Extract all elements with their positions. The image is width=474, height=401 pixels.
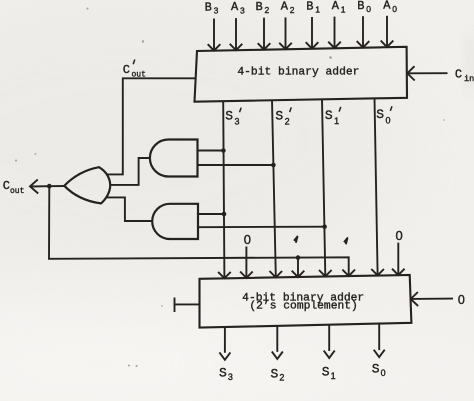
wire Cout feedback to U2 input with arrow: [49, 186, 355, 276]
svg-text:0: 0: [244, 232, 251, 247]
wire Cin arrow: [407, 66, 447, 80]
wire input B3 arrow: [208, 19, 221, 51]
wire S2' vertical with arrow into U2: [270, 100, 283, 277]
wire input A0 arrow: [381, 16, 394, 47]
wire output S2 arrow: [272, 326, 283, 359]
constant 1 label (right): [344, 238, 347, 244]
node S1' label: [325, 107, 341, 126]
AND gate G1: [150, 140, 198, 177]
wire input A1 arrow: [328, 17, 341, 48]
wire input B2 arrow: [258, 18, 271, 50]
svg-text:0: 0: [458, 293, 465, 307]
wire C'out from U1 to OR gate G3: [108, 78, 196, 174]
wire output S0 arrow: [374, 323, 385, 357]
junction Cout feedback: [47, 184, 52, 189]
junction G2-S3': [222, 212, 227, 217]
wire input A2 arrow: [279, 17, 292, 49]
constant 1 label (left): [294, 237, 297, 243]
svg-text:(2’s complement): (2’s complement): [249, 301, 357, 313]
wire S3' vertical with arrow into U2: [218, 101, 231, 278]
wire S0' vertical with arrow into U2: [371, 98, 384, 275]
4-bit binary adder U2 (2's complement): [200, 275, 412, 328]
AND gate G2: [152, 204, 198, 239]
wire output S1 arrow: [324, 325, 335, 359]
junction G1-S3': [221, 148, 226, 153]
wire feedback branch arrow into U2: [292, 258, 305, 278]
wire constant 0 stub arrow (right): [392, 243, 405, 276]
wire G2 input 1 from S3': [198, 213, 224, 215]
junction feedback branch: [296, 255, 301, 260]
wire S1' vertical with arrow into U2: [319, 99, 332, 276]
wire G2 input 2 from S1': [198, 226, 325, 229]
wire G1 output to G3: [110, 158, 150, 185]
wire U2 left stub terminal: [175, 298, 200, 313]
node S2' label: [275, 107, 291, 126]
wire G1 input 2 from S2': [198, 164, 274, 166]
wire G2 output to G3: [106, 197, 152, 221]
4-bit binary adder U1: [195, 47, 408, 102]
node S0' label: [376, 106, 392, 125]
junction G2-S1': [322, 224, 327, 229]
wire input B1 arrow: [306, 17, 319, 49]
label C'out: [123, 60, 146, 80]
svg-text:4-bit binary adder: 4-bit binary adder: [237, 67, 359, 79]
wire G1 input 1 from S3': [198, 150, 224, 152]
svg-text:0: 0: [396, 228, 403, 243]
OR gate G3: [64, 167, 110, 203]
wire G3 output to Cout arrow: [30, 179, 64, 193]
wire U2 carry-in arrow: [411, 292, 453, 306]
wire input B0 arrow: [357, 16, 370, 47]
node S3' label: [225, 108, 241, 127]
wire constant 0 stub arrow: [240, 247, 253, 278]
wire input A3 arrow: [230, 18, 243, 50]
junction G1-S2': [271, 163, 276, 168]
wire output S3 arrow: [219, 327, 230, 360]
